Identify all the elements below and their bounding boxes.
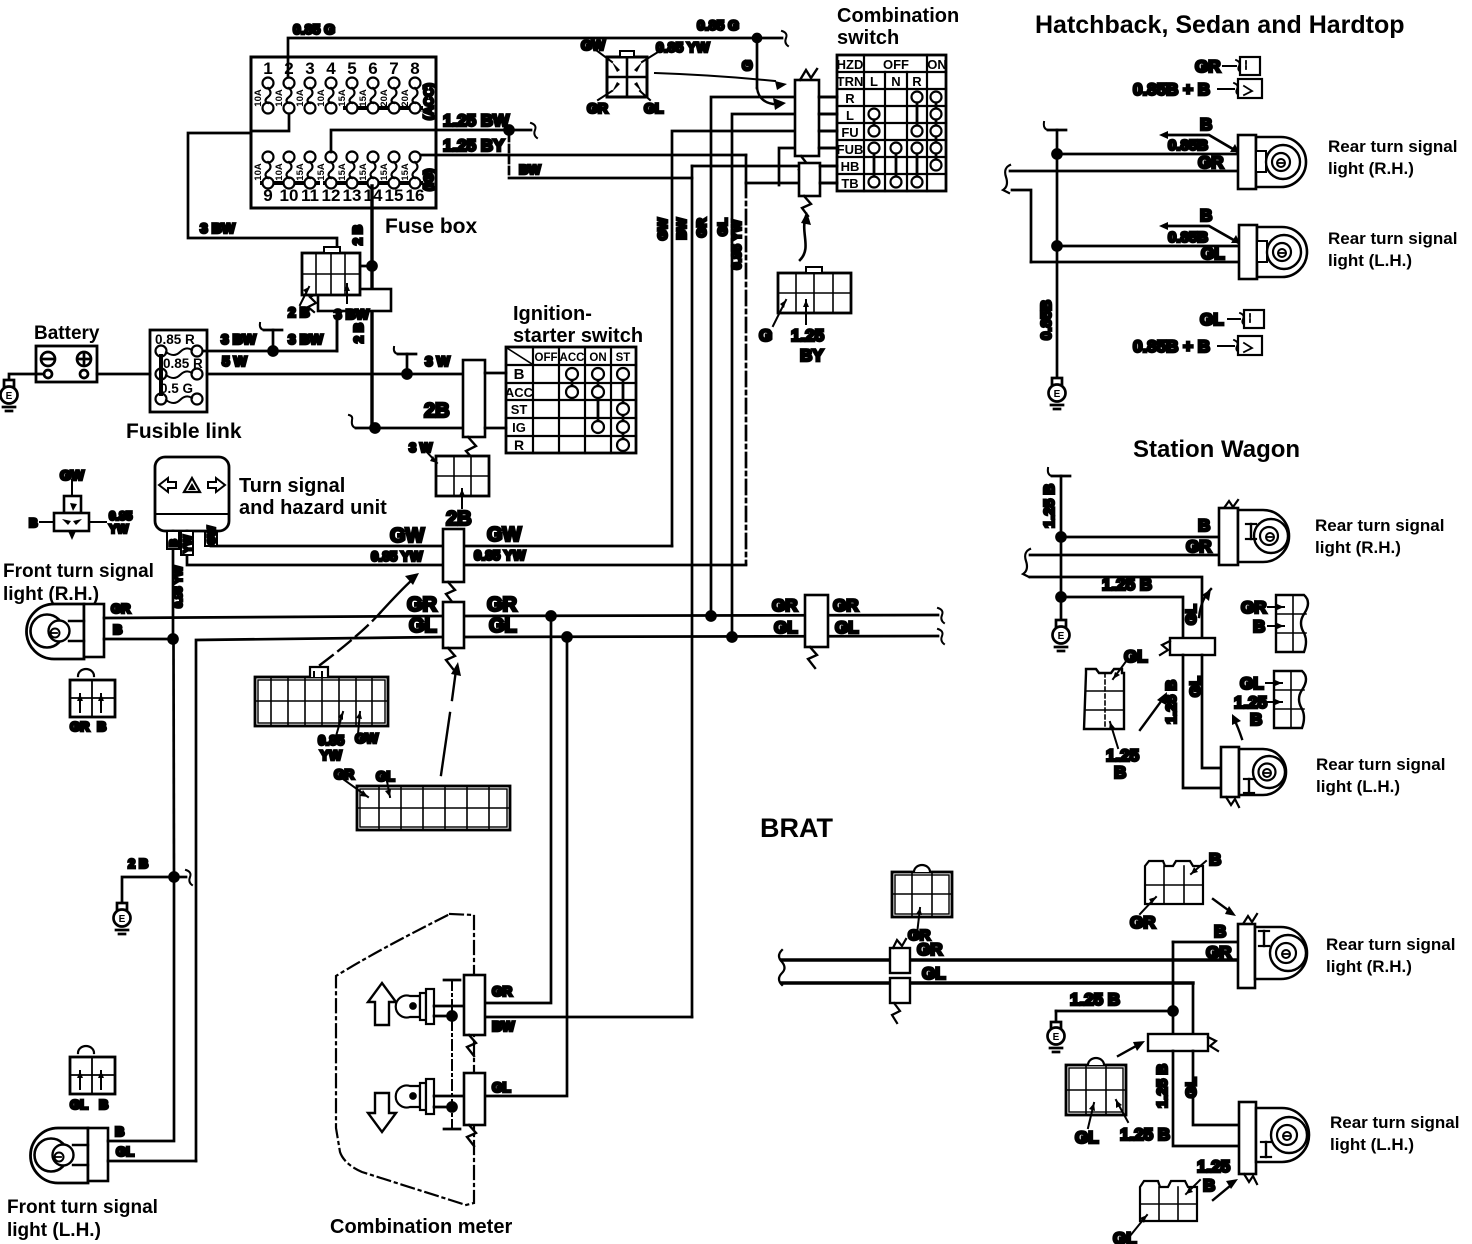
- svg-text:B: B: [29, 516, 38, 530]
- svg-text:GR: GR: [917, 940, 943, 959]
- rear turn signal light LH (wagon): [1221, 747, 1445, 807]
- svg-text:ACC: ACC: [505, 385, 534, 400]
- svg-text:3 BW: 3 BW: [200, 220, 236, 236]
- svg-text:15A: 15A: [379, 163, 390, 181]
- svg-text:2 B: 2 B: [351, 323, 366, 343]
- wire B arrow (hatchback LH): [1159, 206, 1240, 243]
- svg-text:10A: 10A: [253, 163, 264, 181]
- svg-text:2 B: 2 B: [288, 304, 310, 320]
- svg-text:10A: 10A: [274, 89, 285, 107]
- connector GR/GL breakaway 1: [443, 602, 464, 669]
- svg-text:B: B: [1114, 763, 1126, 782]
- wire GR vertical (combination switch R row): [711, 97, 837, 616]
- svg-text:Front turn signal: Front turn signal: [7, 1197, 158, 1218]
- svg-text:Fuse box: Fuse box: [385, 215, 478, 238]
- arrow to LH bar (BRAT): [1213, 1179, 1238, 1200]
- svg-text:20A: 20A: [379, 89, 390, 107]
- meter T-bus line: [444, 980, 460, 1129]
- svg-text:1.25 B: 1.25 B: [1041, 484, 1058, 528]
- ground E (wagon): [1053, 620, 1070, 651]
- svg-text:GR: GR: [487, 594, 518, 616]
- svg-text:B: B: [1203, 1176, 1215, 1195]
- svg-text:GW: GW: [206, 525, 218, 545]
- arrow to wagon connector: [1140, 692, 1167, 730]
- combination switch table: [837, 5, 960, 191]
- ground E (BRAT): [1048, 1022, 1065, 1052]
- connector face GL/B (BRAT bottom, 6-cell): [1113, 1157, 1230, 1244]
- svg-text:GL: GL: [376, 769, 395, 784]
- svg-text:8: 8: [410, 59, 419, 78]
- wire FUB to 0.85YW: [779, 148, 837, 185]
- svg-text:OFF: OFF: [883, 57, 909, 72]
- wire 1.25 BW from fuse 12: [331, 111, 537, 152]
- connector meter lamp 1 breakaway: [464, 975, 515, 1056]
- connector combination switch upper breakaway: [795, 69, 837, 178]
- wire 0.85YW vertical (dash-dot): [729, 155, 746, 564]
- turn signal and hazard unit: [155, 457, 387, 531]
- svg-text:4: 4: [326, 59, 336, 78]
- svg-text:GL: GL: [1113, 1229, 1137, 1244]
- wire 2 B fuse box down: [345, 186, 377, 428]
- connector GR breakaway (BRAT): [890, 939, 910, 973]
- connector GW/YW breakaway: [443, 529, 464, 603]
- connector GR/GL breakaway 2: [772, 595, 859, 668]
- wire B arrow (hatchback RH): [1159, 115, 1239, 152]
- svg-text:B: B: [168, 539, 180, 547]
- wire 3 BW fusible link to connector: [203, 311, 337, 356]
- fuses 1-8 (ACC row): [253, 59, 421, 114]
- wire B vertical to 2B junction: [172, 639, 175, 877]
- svg-text:10A: 10A: [295, 89, 306, 107]
- svg-text:GL: GL: [1187, 676, 1204, 697]
- rear turn signal light LH (hatchback): [1239, 225, 1457, 279]
- svg-text:Front turn signal: Front turn signal: [3, 561, 154, 582]
- svg-text:ACC: ACC: [560, 352, 585, 364]
- svg-text:15A: 15A: [337, 89, 348, 107]
- svg-text:0.85 R: 0.85 R: [163, 356, 203, 371]
- svg-text:B: B: [1250, 710, 1262, 729]
- svg-text:light (R.H.): light (R.H.): [1315, 538, 1401, 557]
- wire HB to BW vertical: [692, 165, 837, 168]
- dashed arrow to GW/YW connector: [320, 573, 419, 665]
- connector hook (wagon harness): [1023, 549, 1202, 638]
- svg-text:2: 2: [284, 59, 293, 78]
- curved arrow (wagon RH connector): [1199, 589, 1211, 617]
- svg-text:0.5 G: 0.5 G: [160, 381, 193, 396]
- svg-text:GR: GR: [694, 217, 709, 237]
- svg-text:Combination: Combination: [837, 5, 959, 27]
- wire 1.25 B (wagon to LH): [1061, 575, 1183, 638]
- connector face GR/GL (14-cell): [334, 767, 510, 830]
- svg-text:0.85B + B: 0.85B + B: [1133, 337, 1210, 356]
- wire 1.25B vertical (wagon ground): [1041, 468, 1070, 620]
- svg-text:2 B: 2 B: [350, 225, 365, 245]
- combination meter outline: [336, 914, 474, 1205]
- wire 3 BW from fuse box to connector: [188, 133, 337, 289]
- wire B front LH: [108, 881, 174, 1141]
- svg-text:OFF: OFF: [535, 352, 558, 364]
- meter down arrow: [368, 1093, 396, 1132]
- wire B from hazard unit: [167, 531, 180, 639]
- svg-text:B: B: [99, 1097, 108, 1112]
- svg-text:HZD: HZD: [837, 57, 864, 72]
- svg-text:5: 5: [347, 59, 356, 78]
- svg-text:GL: GL: [1075, 1128, 1099, 1147]
- battery: [34, 323, 100, 382]
- wire 1.25 BY from fuse 16: [421, 136, 746, 155]
- svg-text:GL: GL: [492, 1080, 511, 1095]
- svg-text:BW: BW: [492, 1019, 515, 1034]
- connector 2B/3BW breakaway: [308, 289, 391, 351]
- wire GL front LH: [108, 1144, 196, 1161]
- wire 1.25B below connector (wagon): [1163, 655, 1221, 788]
- wire GL harness (BRAT): [782, 964, 1193, 983]
- svg-text:and hazard unit: and hazard unit: [239, 497, 387, 519]
- svg-text:GW: GW: [60, 467, 85, 483]
- svg-text:Rear turn signal: Rear turn signal: [1328, 229, 1457, 248]
- svg-text:GW: GW: [487, 524, 522, 546]
- svg-text:1.25 B: 1.25 B: [1120, 1125, 1170, 1144]
- svg-text:GR: GR: [334, 767, 355, 782]
- wire GL vertical (combination switch L row): [732, 114, 837, 637]
- wire GL below connector (BRAT): [1183, 1051, 1239, 1125]
- svg-text:3 BW: 3 BW: [288, 331, 324, 347]
- svg-text:GR: GR: [1241, 598, 1267, 617]
- svg-text:0.85 YW: 0.85 YW: [474, 548, 526, 563]
- svg-text:BRAT: BRAT: [760, 813, 833, 843]
- svg-text:GW: GW: [655, 217, 670, 240]
- svg-text:light (L.H.): light (L.H.): [7, 1220, 101, 1241]
- svg-text:BW: BW: [519, 162, 541, 177]
- connector wagon breakaway: [1160, 638, 1215, 655]
- svg-text:GL: GL: [715, 218, 730, 236]
- svg-text:GW: GW: [581, 37, 606, 53]
- svg-text:light (L.H.): light (L.H.): [1330, 1135, 1414, 1154]
- connector combination switch lower breakaway: [799, 163, 837, 216]
- svg-text:Rear turn signal: Rear turn signal: [1328, 137, 1457, 156]
- arrow to RH bar (BRAT): [1213, 899, 1236, 916]
- svg-text:0.85: 0.85: [318, 733, 345, 748]
- ground E (front): [114, 903, 131, 934]
- svg-text:1.25 BY: 1.25 BY: [443, 136, 505, 155]
- wire BW branch (dashed drop to BW vertical): [509, 134, 692, 178]
- svg-text:0.85 YW: 0.85 YW: [729, 219, 744, 269]
- svg-text:6: 6: [368, 59, 377, 78]
- arrow to lower connector (from 8-cell): [800, 212, 811, 260]
- connector face 2B/3BW (8-cell grid): [288, 247, 370, 322]
- svg-text:ON: ON: [589, 352, 606, 364]
- svg-text:Rear turn signal: Rear turn signal: [1316, 755, 1445, 774]
- wire GR front RH: [104, 601, 443, 618]
- svg-text:light (R.H.): light (R.H.): [1326, 957, 1412, 976]
- connector GL pigtail (hatchback): [1200, 310, 1264, 329]
- svg-text:GR: GR: [1130, 913, 1156, 932]
- svg-text:1.25 BW: 1.25 BW: [443, 111, 510, 130]
- svg-text:5 W: 5 W: [222, 353, 248, 369]
- svg-text:Station Wagon: Station Wagon: [1133, 436, 1300, 463]
- fusible link: [126, 330, 242, 443]
- rear turn signal light RH (wagon): [1219, 500, 1444, 565]
- svg-text:GR: GR: [70, 719, 90, 734]
- svg-text:BY: BY: [800, 346, 824, 365]
- wire battery to ground: [9, 374, 44, 380]
- svg-text:B: B: [97, 719, 106, 734]
- connector face GL/1.25B (BRAT left, 6-cell): [1066, 1058, 1170, 1147]
- svg-text:GL: GL: [116, 1144, 134, 1159]
- connector meter lamp 2 breakaway: [464, 1073, 511, 1146]
- svg-text:L: L: [846, 108, 854, 123]
- svg-text:Turn signal: Turn signal: [239, 475, 345, 497]
- svg-text:10A: 10A: [253, 89, 264, 107]
- wire GL down to meter: [485, 637, 567, 1096]
- connector face GR/B (wagon, 6-cell): [1241, 595, 1308, 652]
- wire B (BRAT RH): [1173, 922, 1238, 942]
- connector 0.85B+B pigtail (hatchback lower): [1133, 336, 1262, 356]
- svg-text:20A: 20A: [400, 89, 411, 107]
- svg-text:GR: GR: [1198, 153, 1224, 172]
- wire 5W / 3W battery to ignition switch: [97, 347, 463, 379]
- svg-text:GL: GL: [489, 615, 517, 637]
- wire GR (wagon RH): [1030, 537, 1219, 556]
- svg-text:GR: GR: [1206, 943, 1232, 962]
- svg-text:E: E: [1054, 389, 1061, 400]
- svg-text:GW: GW: [390, 525, 425, 547]
- svg-text:Hatchback, Sedan and Hardtop: Hatchback, Sedan and Hardtop: [1035, 11, 1405, 39]
- ground E (battery): [1, 380, 18, 411]
- wire 0.85YW right side: [464, 548, 746, 565]
- arrow to BRAT connector: [1118, 1041, 1145, 1056]
- wire GR harness (BRAT): [782, 940, 1238, 960]
- wire B vertical (hatchback ground): [1038, 122, 1066, 378]
- wire GL drop (BRAT): [1192, 983, 1195, 1034]
- svg-text:light (L.H.): light (L.H.): [1316, 777, 1400, 796]
- svg-text:0.85 YW: 0.85 YW: [173, 565, 185, 608]
- svg-text:1.25: 1.25: [791, 326, 824, 345]
- svg-text:0.85: 0.85: [109, 509, 133, 523]
- svg-text:1.25 B: 1.25 B: [1102, 575, 1152, 594]
- wire BW to meter: [485, 1016, 692, 1019]
- svg-text:3 W: 3 W: [425, 353, 451, 369]
- connector face GL/1.25B (wagon, 6-cell): [1234, 671, 1306, 729]
- svg-text:10A: 10A: [316, 89, 327, 107]
- wire GL below connector (wagon): [1187, 655, 1221, 768]
- svg-text:G: G: [759, 326, 772, 345]
- meter lamp 1 (turn indicator): [396, 989, 464, 1024]
- connector face GL/B (front LH, 4-cell): [70, 1046, 115, 1112]
- curved arrow (wagon LH): [1232, 714, 1242, 739]
- svg-text:15A: 15A: [316, 163, 327, 181]
- svg-text:10A: 10A: [274, 163, 285, 181]
- svg-text:E: E: [1053, 1032, 1060, 1043]
- wire GL rise: [196, 637, 443, 1161]
- svg-text:15A: 15A: [337, 163, 348, 181]
- svg-text:GL: GL: [835, 618, 859, 637]
- wire G: [739, 38, 786, 110]
- meter lamp 2: [396, 1079, 464, 1114]
- svg-text:B: B: [113, 622, 122, 637]
- svg-text:N: N: [891, 74, 900, 89]
- svg-text:0.85 YW: 0.85 YW: [656, 39, 710, 55]
- svg-text:GL: GL: [774, 618, 798, 637]
- svg-text:1.25 B: 1.25 B: [1154, 1064, 1171, 1108]
- rear turn signal light RH (hatchback): [1238, 135, 1457, 189]
- svg-text:2B: 2B: [446, 508, 472, 530]
- svg-text:FU: FU: [841, 125, 858, 140]
- svg-text:Rear turn signal: Rear turn signal: [1315, 516, 1444, 535]
- front turn signal light LH: [7, 1128, 158, 1241]
- svg-text:HB: HB: [841, 159, 860, 174]
- wire GR down to meter: [485, 616, 551, 1003]
- connector face 3W/2B (6-cell grid): [409, 440, 489, 530]
- connector face GR/B (front RH, 4-cell): [70, 669, 115, 734]
- svg-text:TRN: TRN: [837, 74, 864, 89]
- svg-text:GR: GR: [833, 596, 859, 615]
- svg-text:GL: GL: [1200, 310, 1224, 329]
- svg-text:GL: GL: [1201, 244, 1225, 263]
- connector BRAT breakaway: [1148, 1034, 1218, 1051]
- svg-text:3 BW: 3 BW: [334, 306, 370, 322]
- svg-text:GW: GW: [355, 731, 379, 746]
- svg-text:GL: GL: [1183, 604, 1200, 625]
- svg-text:YW: YW: [182, 535, 194, 553]
- meter up arrow: [368, 983, 396, 1025]
- svg-text:B: B: [1198, 516, 1210, 535]
- svg-text:TB: TB: [841, 176, 858, 191]
- wire 2B ground junction: [122, 856, 192, 903]
- svg-text:15A: 15A: [358, 89, 369, 107]
- wire GW right side: [464, 524, 672, 546]
- svg-text:light (R.H.): light (R.H.): [1328, 159, 1414, 178]
- rear turn signal light LH (BRAT): [1239, 1102, 1459, 1184]
- arrow to GR/GL connector: [441, 662, 461, 775]
- svg-text:15A: 15A: [358, 163, 369, 181]
- svg-text:GR: GR: [587, 100, 608, 116]
- connector face B/GR (BRAT RH, 6-cell): [1130, 850, 1221, 932]
- ground E (hatchback): [1049, 378, 1066, 409]
- svg-text:0.85B + B: 0.85B + B: [1133, 80, 1210, 99]
- svg-text:1.25: 1.25: [1197, 1157, 1230, 1176]
- svg-text:0.85 YW: 0.85 YW: [371, 549, 423, 564]
- svg-text:1.25 B: 1.25 B: [1070, 990, 1120, 1009]
- fuse box: [251, 57, 436, 208]
- svg-text:B: B: [1200, 206, 1212, 225]
- svg-text:BW: BW: [674, 217, 689, 239]
- wire GR right of connector: [407, 594, 944, 623]
- svg-text:B: B: [115, 1124, 124, 1139]
- svg-text:3 W: 3 W: [409, 440, 433, 455]
- svg-text:15A: 15A: [400, 163, 411, 181]
- connector GW/0.85YW 4-square: [581, 37, 710, 116]
- harness left break (BRAT): [779, 950, 785, 985]
- svg-text:IG: IG: [512, 420, 526, 435]
- wire GW from hazard unit: [205, 525, 443, 547]
- svg-text:light (R.H.): light (R.H.): [3, 584, 99, 605]
- svg-text:3: 3: [305, 59, 314, 78]
- wire 1.25 B (BRAT ground): [1056, 942, 1178, 1034]
- wire 1.25B below connector (BRAT): [1154, 1051, 1239, 1146]
- connector face GL/1.25B left (wagon): [1084, 647, 1148, 782]
- connector face 0.85YW/GW (16-cell): [255, 667, 388, 763]
- svg-text:GR: GR: [407, 594, 438, 616]
- svg-text:B: B: [1253, 617, 1265, 636]
- svg-text:R: R: [912, 74, 922, 89]
- svg-text:R: R: [845, 91, 855, 106]
- connector B/GW T-type (front RH): [29, 467, 133, 540]
- wire 0.85B (hatchback RH): [1057, 137, 1238, 154]
- wire 2B to ignition switch: [349, 400, 463, 433]
- svg-text:Battery: Battery: [34, 323, 100, 344]
- connector 0.85B+B pigtail (hatchback upper): [1133, 79, 1262, 99]
- wire B front RH: [104, 622, 178, 644]
- svg-text:GR: GR: [492, 984, 513, 999]
- svg-text:2B: 2B: [424, 400, 450, 422]
- rear turn signal light RH (BRAT): [1238, 914, 1455, 988]
- fuses 9-16 (IG row): [253, 152, 424, 206]
- wire 0.85YW from hazard unit: [173, 531, 443, 608]
- svg-text:FUB: FUB: [837, 142, 864, 157]
- svg-text:GL: GL: [922, 964, 946, 983]
- svg-text:L: L: [870, 74, 878, 89]
- svg-text:light (L.H.): light (L.H.): [1328, 251, 1412, 270]
- wire fuse 2 feed: [287, 57, 290, 78]
- connector GR pigtail (hatchback): [1195, 57, 1260, 76]
- svg-text:3 BW: 3 BW: [221, 331, 257, 347]
- arrow to upper connector: [655, 73, 787, 90]
- wire 0.85B (hatchback LH): [1057, 229, 1239, 246]
- wire TB row: [746, 182, 837, 185]
- wire GL (hatchback LH): [1031, 244, 1239, 263]
- wire B (wagon RH): [1061, 516, 1219, 537]
- connector face GR (BRAT top, 6-cell): [892, 865, 952, 944]
- connector ignition switch breakaway: [463, 360, 485, 460]
- svg-text:Ignition-: Ignition-: [513, 303, 592, 325]
- svg-text:B: B: [1200, 115, 1212, 134]
- svg-text:B: B: [1209, 850, 1221, 869]
- svg-text:GL: GL: [1124, 647, 1148, 666]
- svg-text:R: R: [514, 437, 524, 453]
- svg-text:E: E: [6, 391, 13, 402]
- svg-text:GR: GR: [1186, 537, 1212, 556]
- svg-text:2 B: 2 B: [128, 856, 148, 871]
- svg-text:YW: YW: [109, 522, 129, 536]
- svg-text:switch: switch: [837, 27, 899, 49]
- svg-text:E: E: [1058, 631, 1065, 642]
- svg-text:ST: ST: [616, 352, 631, 364]
- svg-text:0.85B: 0.85B: [1038, 300, 1055, 340]
- svg-text:Rear turn signal: Rear turn signal: [1326, 935, 1455, 954]
- svg-text:G: G: [739, 60, 755, 71]
- svg-text:GL: GL: [409, 615, 437, 637]
- wire GW vertical (combination switch FU row): [672, 131, 837, 546]
- wire GR (hatchback RH): [1010, 153, 1238, 172]
- ignition-starter switch table: [485, 303, 643, 453]
- svg-text:GL: GL: [644, 100, 664, 116]
- wire 0.85G: [288, 17, 788, 78]
- svg-text:E: E: [119, 914, 126, 925]
- svg-text:B: B: [514, 366, 525, 383]
- svg-text:ON: ON: [927, 57, 947, 72]
- svg-text:Combination meter: Combination meter: [330, 1216, 512, 1238]
- svg-text:0.85 R: 0.85 R: [155, 332, 195, 347]
- svg-text:YW: YW: [320, 748, 342, 763]
- wire fuse 2 to 3BW: [251, 113, 289, 131]
- svg-text:Rear turn signal: Rear turn signal: [1330, 1113, 1459, 1132]
- svg-text:ST: ST: [511, 402, 528, 417]
- svg-text:Fusible link: Fusible link: [126, 420, 242, 443]
- svg-text:0.85 G: 0.85 G: [697, 17, 739, 33]
- front turn signal light RH: [3, 561, 154, 659]
- svg-text:(ACC): (ACC): [421, 83, 436, 120]
